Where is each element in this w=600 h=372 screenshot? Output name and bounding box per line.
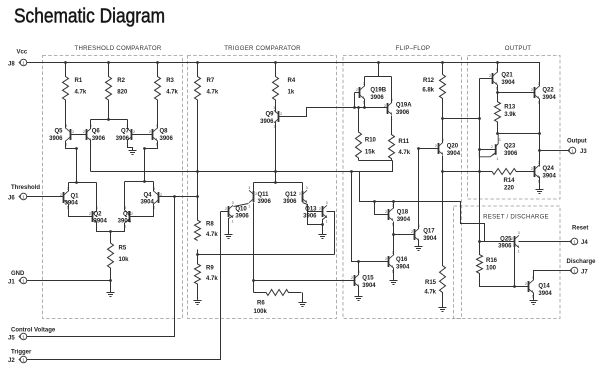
- svg-text:3906: 3906: [498, 244, 512, 250]
- label Q6: [92, 129, 106, 142]
- node Vcc-Q21: [496, 61, 499, 64]
- svg-text:3: 3: [248, 186, 250, 190]
- transistor Q6 2N3906: [83, 124, 92, 146]
- svg-text:2: 2: [280, 112, 282, 116]
- wire Q19B base down to base line: [354, 93, 356, 108]
- svg-text:Q24: Q24: [543, 166, 555, 172]
- svg-text:Q5: Q5: [54, 129, 63, 135]
- svg-text:Q13: Q13: [305, 206, 317, 212]
- node Vcc-R4: [274, 61, 277, 64]
- wire Q18 emitter column: [393, 222, 395, 256]
- svg-text:3904: 3904: [501, 80, 515, 86]
- svg-text:3904: 3904: [397, 217, 411, 223]
- node R14 line junction: [478, 170, 481, 173]
- svg-text:15k: 15k: [365, 150, 376, 156]
- wire reference line R8 node to Q13: [198, 254, 335, 256]
- wire R10/R11 bottom rail: [359, 160, 393, 162]
- svg-text:R2: R2: [117, 78, 125, 84]
- svg-text:Control Voltage: Control Voltage: [11, 328, 56, 334]
- svg-text:Q2: Q2: [94, 211, 103, 217]
- resistor R8 4.7k: [195, 220, 201, 240]
- svg-text:Output: Output: [567, 139, 587, 145]
- svg-text:2: 2: [299, 192, 301, 196]
- svg-text:Q22: Q22: [542, 88, 554, 94]
- wire set branch down to Q16 base line: [352, 172, 389, 262]
- wire Q10 emitter to ground: [229, 216, 234, 235]
- svg-text:3906: 3906: [160, 136, 174, 142]
- wire Q24 collector riser: [539, 151, 541, 166]
- wire Q22 collector riser: [539, 86, 541, 87]
- wire Q15 emitter to ground: [358, 287, 360, 297]
- resistor R13 3.9k: [495, 93, 501, 134]
- ground below Q13: [319, 235, 327, 239]
- svg-text:3906: 3906: [49, 136, 63, 142]
- wire Q1 emitter to Q2 base: [69, 204, 93, 217]
- node R8/R9 junction: [196, 253, 199, 256]
- wire Q12 emitter riser: [302, 183, 304, 192]
- transistor Q20 2N3904: [435, 138, 444, 160]
- wire R16 bottom line to Q14 base: [480, 274, 529, 287]
- svg-text:3: 3: [65, 124, 67, 128]
- wire Q7 lower leg to ground: [128, 141, 133, 151]
- svg-text:TRIGGER COMPARATOR: TRIGGER COMPARATOR: [224, 45, 301, 52]
- resistor R16 100: [477, 255, 483, 274]
- wire Q20 emitter down to R15 node: [442, 156, 444, 172]
- svg-text:Q8: Q8: [160, 129, 169, 135]
- svg-text:100: 100: [486, 265, 497, 271]
- label R1 value: [75, 78, 87, 96]
- connector J2 (Trigger): [19, 356, 27, 363]
- label Q20: [447, 144, 461, 157]
- transistor Q9 2N3906: [273, 106, 282, 128]
- connector J3 (Output): [568, 147, 576, 154]
- wire Vcc rail from J8 across boxes to Q22 collector: [27, 63, 540, 86]
- wire Q4 collector riser: [153, 182, 155, 192]
- svg-text:3.9k: 3.9k: [504, 112, 516, 118]
- node Q5/Q6 bottom junction: [75, 147, 78, 150]
- wire Q7-Q8 base tie: [132, 134, 153, 136]
- label Q7: [116, 129, 130, 142]
- wire Q16 emitter to ground: [393, 268, 395, 281]
- svg-text:Q17: Q17: [423, 229, 435, 235]
- wire Q20 collector column: [442, 119, 444, 143]
- label Q5: [49, 129, 63, 142]
- label R3 value: [166, 78, 178, 96]
- svg-text:R15: R15: [425, 280, 437, 286]
- svg-text:2: 2: [531, 88, 533, 92]
- label Q25: [498, 236, 512, 249]
- svg-text:Q25: Q25: [500, 236, 512, 242]
- node line-R7 junction: [196, 170, 199, 173]
- resistor R4 1k: [273, 63, 279, 113]
- svg-text:2: 2: [225, 207, 227, 211]
- wire Q22 emitter down: [539, 99, 541, 167]
- transistor Q17 2N3904: [411, 224, 420, 246]
- transistor Q10 2N3906: [225, 201, 234, 223]
- svg-text:3906: 3906: [396, 110, 410, 116]
- wire R12 bottom junction line to output stage: [443, 118, 480, 120]
- label Q1: [65, 193, 80, 206]
- wire control voltage from J5: [27, 197, 175, 337]
- transistor Q23 2N3906: [479, 134, 500, 161]
- svg-text:Q19A: Q19A: [396, 103, 412, 109]
- connector J6 (Threshold): [19, 193, 27, 200]
- svg-text:4.7k: 4.7k: [398, 150, 410, 156]
- wire Q2 emitter to R5 node: [97, 223, 111, 232]
- wire Q5 lower leg to Q1 riser: [66, 141, 77, 149]
- transistor Q15 2N3904: [351, 270, 360, 292]
- label R2 value: [117, 78, 128, 96]
- svg-text:Q16: Q16: [396, 257, 408, 263]
- svg-text:2: 2: [356, 88, 358, 92]
- wire node to Q22 base: [498, 92, 535, 94]
- transistor Q2 2N3904: [89, 206, 98, 228]
- wire Q21 emitter down: [497, 85, 499, 93]
- node Q20 base junction: [417, 147, 420, 150]
- svg-text:J6: J6: [8, 196, 15, 202]
- svg-text:3906: 3906: [504, 151, 518, 157]
- svg-text:2: 2: [491, 145, 493, 149]
- wire junction down to Q1 collector rail: [76, 149, 78, 183]
- node R2 bottom: [107, 118, 110, 121]
- svg-text:2: 2: [411, 230, 413, 234]
- ground below Q15: [355, 297, 363, 301]
- svg-text:RESET / DISCHARGE: RESET / DISCHARGE: [483, 214, 549, 221]
- node Q25 emitter junction: [513, 285, 516, 288]
- svg-text:3904: 3904: [538, 291, 552, 297]
- wire Q6 collector riser: [90, 120, 92, 129]
- wire Q14 emitter to ground: [533, 293, 535, 301]
- transistor Q22 2N3904: [531, 82, 540, 104]
- resistor R9 4.7k: [195, 250, 201, 301]
- svg-text:3906: 3906: [260, 119, 274, 125]
- label R5 value: [119, 246, 130, 264]
- svg-text:Q7: Q7: [121, 129, 130, 135]
- wire R13 bottom to Q24 column: [498, 133, 540, 135]
- wire Q17 emitter to ground: [418, 241, 420, 247]
- node R5 top junction: [109, 230, 112, 233]
- node Q13 emitter/Q12 junction: [321, 223, 324, 226]
- svg-text:3904: 3904: [447, 151, 461, 157]
- transistor Q19B 2N3906: [356, 82, 365, 104]
- svg-text:1: 1: [326, 219, 328, 223]
- wire base rail R2 row: [91, 119, 128, 121]
- svg-text:Q15: Q15: [362, 276, 374, 282]
- svg-text:3906: 3906: [370, 95, 384, 101]
- wire Q9 base to flip-flop input: [279, 108, 388, 117]
- wire Q15 base line: [254, 280, 355, 282]
- transistor Q25 2N3906: [511, 231, 520, 253]
- svg-text:4.7k: 4.7k: [424, 290, 436, 296]
- svg-text:3904: 3904: [396, 264, 410, 270]
- svg-text:2: 2: [133, 130, 135, 134]
- wire Q25 base line: [480, 241, 515, 243]
- transistor Q16 2N3904: [385, 251, 394, 273]
- resistor R5 10k: [108, 232, 114, 281]
- svg-text:Discharge: Discharge: [567, 259, 597, 265]
- svg-text:Q19B: Q19B: [370, 88, 386, 94]
- label Q17: [423, 229, 437, 242]
- wire threshold comparator output line to flip-flop: [91, 161, 393, 172]
- wire output to J3: [540, 150, 570, 152]
- svg-text:3906: 3906: [235, 214, 249, 220]
- resistor R11 4.7k: [389, 116, 395, 161]
- svg-text:3: 3: [156, 124, 158, 128]
- svg-text:Threshold: Threshold: [11, 185, 40, 191]
- label Q24: [543, 166, 557, 179]
- label R7 value: [207, 78, 219, 96]
- svg-text:3906: 3906: [283, 199, 297, 205]
- wire R6 lead down: [253, 281, 255, 293]
- svg-text:2: 2: [89, 212, 91, 216]
- node Q17 base tie: [392, 233, 395, 236]
- svg-text:3906: 3906: [92, 136, 106, 142]
- svg-text:Reset: Reset: [572, 226, 588, 232]
- section box FLIP-FLOP: [343, 56, 462, 319]
- svg-text:Schematic Diagram: Schematic Diagram: [14, 5, 165, 28]
- node Q7/Q8 bottom junction: [143, 147, 146, 150]
- transistor Q21 2N3904: [489, 68, 498, 90]
- label Q8: [160, 129, 174, 142]
- node R5 bottom / GND rail: [109, 279, 112, 282]
- wire Q13 emitter to reference divider: [327, 212, 335, 255]
- svg-text:820: 820: [117, 90, 128, 96]
- label R13 value: [504, 105, 516, 118]
- label Q22: [542, 88, 556, 101]
- wire Q11 emitter riser: [253, 183, 255, 192]
- wire trigger from J2: [27, 212, 221, 360]
- svg-text:4.7k: 4.7k: [166, 90, 178, 96]
- wire node to output stage R14: [443, 171, 480, 173]
- node Vcc-R2: [107, 61, 110, 64]
- svg-text:R10: R10: [365, 138, 377, 144]
- wire Vcc drop to Q19 rail: [378, 63, 380, 77]
- node output stage input upper: [478, 117, 481, 120]
- svg-text:1: 1: [232, 219, 234, 223]
- svg-text:2: 2: [319, 207, 321, 211]
- resistor R10 15k: [356, 132, 362, 161]
- svg-text:2: 2: [489, 74, 491, 78]
- node Q15 collector tie: [357, 260, 360, 263]
- svg-text:4.7k: 4.7k: [75, 90, 87, 96]
- connector J8 (Vcc): [19, 59, 27, 66]
- wire Q25 emitter column: [514, 247, 516, 287]
- svg-text:3904: 3904: [94, 219, 108, 225]
- svg-text:R14: R14: [503, 178, 515, 184]
- node R7/R8/CV reference node: [196, 195, 199, 198]
- svg-text:Q1: Q1: [71, 193, 80, 199]
- wire Q17 collector riser: [418, 149, 420, 229]
- node line-Q9 junction: [274, 170, 277, 173]
- label R11 value: [398, 139, 410, 156]
- svg-text:6.8k: 6.8k: [422, 88, 434, 94]
- wire Q19B emitter down to base line: [364, 99, 366, 108]
- wire Q10 collector to Q11: [234, 204, 249, 207]
- svg-text:Q12: Q12: [285, 192, 297, 198]
- wire Q25 to J4 reset: [519, 241, 571, 243]
- node Q19 base line junction: [353, 106, 356, 109]
- svg-text:3: 3: [499, 138, 501, 142]
- wire Q23 base: [480, 149, 496, 151]
- node pair rail center: [274, 181, 277, 184]
- connector J1 (GND): [19, 277, 27, 284]
- wire trigger riser to Q10 base: [221, 211, 229, 213]
- svg-text:Q10: Q10: [235, 206, 247, 212]
- svg-text:J7: J7: [581, 269, 588, 275]
- svg-text:2: 2: [149, 130, 151, 134]
- wire Q21 collector to rail: [497, 63, 499, 73]
- section box THRESHOLD COMPARATOR: [43, 56, 183, 319]
- node control voltage tie: [173, 195, 176, 198]
- ground below R5: [107, 293, 115, 297]
- svg-text:3: 3: [392, 251, 394, 255]
- section box RESET / DISCHARGE: [454, 206, 561, 319]
- svg-text:J4: J4: [581, 240, 588, 246]
- transistor Q13 2N3906: [319, 201, 328, 223]
- wire R5 ground stem: [110, 281, 112, 293]
- wire Q4 collector rail: [125, 181, 154, 183]
- wire branch to reset stage: [360, 172, 485, 242]
- wire Q15 collector riser: [358, 262, 360, 275]
- svg-text:J8: J8: [8, 61, 15, 67]
- wire Q18 base riser: [375, 202, 389, 215]
- transistor Q7 2N3906: [126, 124, 135, 146]
- resistor R14 220: [480, 169, 517, 175]
- wire Q11/Q12 emitter rail: [254, 182, 303, 184]
- node Q4 rail junction: [143, 180, 146, 183]
- transistor Q8 2N3906: [149, 124, 158, 146]
- svg-text:J3: J3: [580, 149, 587, 155]
- wire Q12 collector down: [303, 203, 323, 225]
- svg-text:R6: R6: [257, 301, 265, 307]
- label R6 value: [254, 301, 268, 316]
- svg-text:2: 2: [83, 130, 85, 134]
- wire Q3 collector riser: [124, 182, 126, 211]
- svg-text:R16: R16: [486, 258, 498, 264]
- svg-text:3906: 3906: [258, 199, 272, 205]
- svg-text:Q9: Q9: [265, 112, 274, 118]
- svg-text:3904: 3904: [542, 95, 556, 101]
- wire Q13 lower leg to ground: [323, 217, 327, 235]
- wire Q4 base to reference node: [159, 196, 198, 198]
- ground below Q17: [415, 247, 423, 251]
- node Vcc-R12: [441, 61, 444, 64]
- connector J4 (Reset): [570, 238, 578, 245]
- svg-text:R4: R4: [288, 78, 296, 84]
- svg-text:R9: R9: [206, 266, 214, 272]
- svg-text:2: 2: [435, 144, 437, 148]
- wire Q14 collector to J7 discharge: [534, 271, 571, 281]
- label R12 value: [422, 78, 434, 94]
- ground between Q6 and Q7: [129, 151, 137, 155]
- wire Q20 base line: [419, 148, 439, 150]
- svg-text:3: 3: [442, 138, 444, 142]
- svg-text:Q4: Q4: [143, 192, 152, 198]
- transistor Q19A 2N3906: [384, 98, 393, 120]
- label R16 value: [486, 258, 498, 271]
- svg-text:R1: R1: [75, 78, 83, 84]
- svg-text:2: 2: [351, 276, 353, 280]
- label Q12: [283, 192, 297, 205]
- label R14 value: [503, 178, 515, 191]
- resistor R2 820: [106, 63, 112, 120]
- label Q4: [140, 192, 154, 205]
- svg-text:Q18: Q18: [397, 210, 409, 216]
- svg-text:Q23: Q23: [504, 144, 516, 150]
- svg-text:R8: R8: [206, 222, 214, 228]
- svg-text:R5: R5: [119, 246, 127, 252]
- node R13 bottom: [496, 132, 499, 135]
- transistor Q5 2N3906: [65, 124, 74, 146]
- node Q18 base branch: [373, 200, 376, 203]
- ground below R15: [439, 308, 447, 312]
- svg-text:2: 2: [385, 210, 387, 214]
- ground below R9: [194, 301, 202, 305]
- ground below Q24: [536, 190, 544, 194]
- wire threshold input J6 to Q1 base: [27, 196, 64, 198]
- label Q10: [235, 206, 249, 219]
- transistor Q18 2N3904: [385, 204, 394, 226]
- transistor Q4 2N3904: [153, 187, 162, 209]
- svg-text:3: 3: [273, 106, 275, 110]
- svg-text:3: 3: [326, 201, 328, 205]
- wire Q19 collector rail: [365, 76, 392, 78]
- svg-text:1k: 1k: [288, 90, 295, 96]
- node Vcc-Q19B: [377, 61, 380, 64]
- ground below Q10: [225, 235, 233, 239]
- svg-text:OUTPUT: OUTPUT: [505, 45, 532, 52]
- svg-text:10k: 10k: [119, 257, 130, 263]
- ground below Q14: [530, 301, 538, 305]
- label Q18: [397, 210, 411, 223]
- node output tap: [538, 149, 541, 152]
- svg-text:1: 1: [497, 157, 499, 161]
- node Q25 base junction: [478, 240, 481, 243]
- resistor R1 4.7k: [63, 63, 69, 129]
- svg-text:3904: 3904: [140, 200, 154, 206]
- svg-text:J5: J5: [8, 336, 15, 342]
- connector J5 (Control Voltage): [19, 333, 27, 340]
- node Q1 rail junction: [75, 181, 78, 184]
- svg-text:GND: GND: [11, 271, 25, 277]
- wire Q17 base line: [394, 234, 415, 236]
- transistor Q3 2N3904: [124, 206, 133, 228]
- label R15 value: [424, 280, 436, 296]
- label Q9: [260, 112, 274, 125]
- wire Q9 lower leg down to pair: [275, 122, 277, 183]
- svg-text:Trigger: Trigger: [11, 350, 32, 356]
- transistor Q11 2N3906: [248, 186, 257, 208]
- resistor R12 6.8k: [440, 63, 446, 119]
- svg-text:2: 2: [60, 193, 62, 197]
- label R10 value: [365, 138, 377, 156]
- svg-text:4.7k: 4.7k: [207, 90, 219, 96]
- node R15 top junction: [441, 170, 444, 173]
- svg-text:R11: R11: [398, 139, 409, 145]
- svg-text:R7: R7: [207, 78, 215, 84]
- svg-text:J2: J2: [8, 358, 15, 364]
- wire Q21 base: [480, 78, 493, 80]
- resistor R7 4.7k: [195, 63, 201, 101]
- wire R10 top tie: [358, 108, 360, 133]
- node Q23 base junction: [478, 148, 481, 151]
- transistor Q14 2N3904: [525, 276, 534, 298]
- label Q19A: [396, 103, 412, 116]
- wire Q1 collector riser: [68, 183, 70, 192]
- node R6 top junction: [252, 279, 255, 282]
- svg-text:4.7k: 4.7k: [206, 232, 218, 238]
- label Q21: [501, 73, 515, 86]
